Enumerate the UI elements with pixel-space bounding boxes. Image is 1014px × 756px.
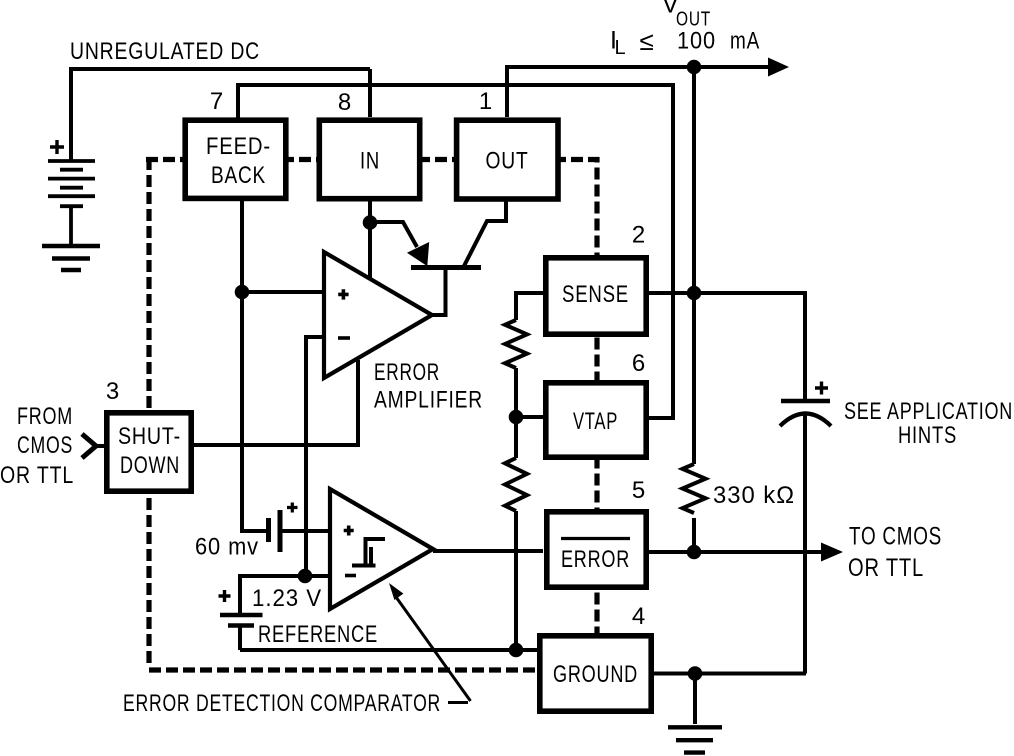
hysteresis symbol <box>352 539 385 566</box>
svg-text:GROUND: GROUND <box>553 661 638 688</box>
wire error amp minus input <box>306 337 324 576</box>
svg-text:3: 3 <box>106 378 120 405</box>
node sense-vout junction <box>687 286 702 301</box>
box error U5 <box>547 512 646 587</box>
node reference junction <box>298 569 313 584</box>
wire IN pin8 bottom <box>368 199 372 280</box>
wire comparator out to error box <box>433 549 543 553</box>
ground G1 <box>42 246 100 270</box>
resistor R1 <box>505 320 527 368</box>
svg-text:4: 4 <box>632 603 646 630</box>
svg-text:ERROR: ERROR <box>561 546 630 573</box>
svg-text:100: 100 <box>677 28 716 55</box>
box shutdown U3 <box>107 413 191 491</box>
svg-text:OUT: OUT <box>486 148 529 175</box>
wire R1-R2 chain <box>514 368 518 458</box>
leader line comparator label <box>396 597 471 703</box>
svg-text:ERROR: ERROR <box>374 359 440 386</box>
dashed IC boundary top <box>146 160 597 634</box>
wire reference to comparator minus <box>240 576 330 613</box>
wire R2 to ground node <box>514 511 518 650</box>
node vtap junction <box>509 410 524 425</box>
svg-text:BACK: BACK <box>211 162 266 189</box>
svg-text:≤: ≤ <box>640 26 655 56</box>
svg-text:DOWN: DOWN <box>120 452 180 479</box>
minus sign error amp <box>338 336 350 340</box>
svg-text:REFERENCE: REFERENCE <box>258 621 378 648</box>
svg-text:OR TTL: OR TTL <box>0 462 74 489</box>
wire error amp plus input <box>242 290 324 294</box>
battery 60mv plates <box>266 518 271 542</box>
plus sign 1.23V <box>219 590 231 602</box>
svg-text:1.23 V: 1.23 V <box>252 585 322 612</box>
node emitter junction <box>363 215 378 230</box>
svg-text:VTAP: VTAP <box>573 408 618 435</box>
box feedback U7 <box>185 120 286 198</box>
svg-text:ERROR DETECTION COMPARATOR: ERROR DETECTION COMPARATOR <box>123 690 441 717</box>
svg-text:SEE APPLICATION: SEE APPLICATION <box>844 398 1013 425</box>
op-amp error detection comparator <box>330 489 433 609</box>
plus sign error amp <box>338 289 348 299</box>
node vout junction <box>687 60 702 75</box>
wire shutdown to amp <box>194 360 358 445</box>
transistor Q1 collector wire <box>464 199 506 266</box>
svg-text:IN: IN <box>360 148 380 175</box>
plus sign comparator <box>344 526 354 536</box>
battery B1 plates <box>48 161 95 245</box>
svg-text:CMOS: CMOS <box>17 432 73 459</box>
wire ground right <box>654 672 806 676</box>
wire input chevron <box>96 444 106 448</box>
wire feedback pin7 to vtap <box>238 85 673 418</box>
node feedback junction <box>235 285 250 300</box>
wire error out to arrow <box>649 550 824 554</box>
wire 60mv to comparator plus <box>278 529 330 533</box>
overline error <box>561 537 630 540</box>
leader arrowhead <box>389 583 403 600</box>
arrow to cmos <box>821 543 843 562</box>
input chevron <box>82 434 96 458</box>
box in U8 <box>319 120 419 199</box>
box sense U2 <box>546 258 646 334</box>
resistor 330k <box>683 464 706 513</box>
wire feedback bottom to 60mv <box>242 199 266 531</box>
wire unregulated dc <box>71 69 370 160</box>
svg-text:SHUT-: SHUT- <box>118 423 181 450</box>
svg-text:UNREGULATED DC: UNREGULATED DC <box>70 38 260 65</box>
minus sign comparator <box>345 574 356 578</box>
svg-text:HINTS: HINTS <box>898 422 957 449</box>
svg-text:60 mv: 60 mv <box>195 534 259 561</box>
svg-text:1: 1 <box>479 88 493 115</box>
node ground right junction <box>688 666 703 681</box>
node error out junction <box>687 545 702 560</box>
svg-text:mA: mA <box>730 28 760 55</box>
svg-text:7: 7 <box>210 88 224 115</box>
svg-text:5: 5 <box>632 477 646 504</box>
wire vout vertical <box>692 67 696 552</box>
svg-text:6: 6 <box>632 350 646 377</box>
wire sense left <box>516 293 543 320</box>
svg-text:OR TTL: OR TTL <box>848 554 924 582</box>
wire ground stub <box>693 674 697 725</box>
plus sign battery B1 <box>50 140 64 154</box>
svg-text:FEED-: FEED- <box>206 133 271 160</box>
transistor Q1 base wire <box>432 267 446 315</box>
svg-text:TO CMOS: TO CMOS <box>849 523 942 551</box>
plus sign 60mv <box>287 503 298 513</box>
ground G2 <box>668 727 722 752</box>
svg-text:AMPLIFIER: AMPLIFIER <box>374 387 483 414</box>
svg-text:8: 8 <box>338 89 352 116</box>
wire sense right to cap <box>649 293 805 401</box>
node ground left junction <box>509 643 524 658</box>
box ground U4 <box>540 636 651 711</box>
wire cap bottom <box>803 414 807 674</box>
transistor Q1 emitter wire <box>370 222 417 247</box>
wire OUT pin1 to vout arrow <box>507 67 772 117</box>
svg-text:330 kΩ: 330 kΩ <box>713 482 795 509</box>
svg-text:L: L <box>615 37 627 59</box>
wire vtap left <box>516 415 543 419</box>
battery B1 lead <box>69 207 73 245</box>
wire reference to ground box <box>240 648 538 652</box>
svg-text:SENSE: SENSE <box>562 281 629 308</box>
capacitor C1 plates <box>781 399 830 403</box>
arrow vout <box>768 58 789 77</box>
op-amp error amplifier <box>324 252 432 378</box>
svg-text:FROM: FROM <box>17 403 73 430</box>
transistor Q1 emitter arrowhead <box>410 245 428 264</box>
transistor Q1 base bar <box>411 265 481 270</box>
dashed IC boundary left/bottom <box>149 158 536 670</box>
box out U1 <box>457 120 558 199</box>
svg-text:2: 2 <box>632 222 646 249</box>
battery 1.23V plates <box>220 613 263 617</box>
wire 1.23V bottom lead <box>238 625 242 650</box>
box vtap U6 <box>546 383 646 457</box>
wire IN pin8 top <box>368 69 372 117</box>
resistor R2 <box>505 458 527 511</box>
plus sign capacitor <box>815 382 828 395</box>
